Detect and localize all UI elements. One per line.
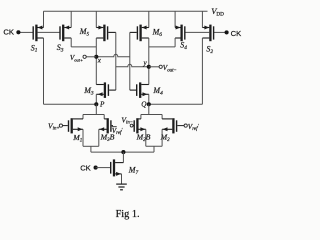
label M3	[83, 86, 94, 96]
wire node y vertical (M6 drain to M4 drain)	[148, 38, 150, 85]
ground symbol	[116, 184, 127, 190]
VDD power rail	[44, 10, 208, 12]
wire M2 source down	[161, 129, 163, 146]
svg-text:M7: M7	[128, 166, 139, 176]
svg-text:M2: M2	[160, 133, 171, 143]
wire M2 drain riser	[161, 115, 163, 119]
label M7	[128, 166, 139, 176]
Vout- open circle	[159, 65, 162, 68]
wire M1 drain riser	[82, 115, 84, 119]
CK label right	[231, 29, 242, 38]
label S1	[31, 43, 38, 53]
transistor S1 (PMOS switch)	[33, 25, 43, 42]
transistor M3 (NMOS latch)	[96, 82, 116, 98]
wire VDD stub to M5	[95, 11, 97, 27]
label node P	[99, 101, 105, 109]
svg-text:VDD: VDD	[211, 6, 224, 18]
label M3B	[100, 133, 115, 143]
svg-text:M1: M1	[72, 133, 82, 143]
node x junction	[94, 55, 98, 59]
wire node Q to input pair	[148, 104, 150, 114]
wire node Q horizontal	[149, 103, 203, 105]
svg-text:M6: M6	[152, 27, 163, 37]
clock line CK to S2 gate	[214, 31, 227, 33]
Vout+ output terminal	[86, 56, 96, 58]
wire M6 gate to cross-couple	[130, 32, 137, 90]
clock line S2 to S4 gate	[185, 31, 209, 33]
svg-text:CK: CK	[231, 29, 242, 38]
Vin+ input terminal	[59, 124, 62, 127]
wire common tail	[91, 151, 154, 153]
wire right pair drain bus to node Q	[141, 114, 162, 116]
wire M3 source to node P	[95, 94, 97, 104]
svg-text:S3: S3	[57, 43, 64, 53]
label Vin+	[48, 121, 60, 131]
wire M4 source to node Q	[148, 94, 150, 104]
svg-text:M5: M5	[79, 27, 90, 37]
svg-text:y: y	[143, 59, 148, 67]
svg-text:Vin−: Vin−	[121, 115, 133, 125]
clock line S1 to S3 gate	[38, 31, 60, 33]
wire VDD stub to S3	[70, 11, 72, 27]
svg-text:x: x	[97, 57, 102, 65]
transistor M7 (tail NMOS)	[96, 159, 124, 176]
label Vout+	[70, 54, 83, 62]
svg-text:M4: M4	[152, 86, 163, 96]
label Vout-	[163, 64, 177, 73]
node Q junction	[147, 102, 151, 106]
wire M5/M3 gates to node y (hop over)	[116, 64, 149, 67]
transistor M2B (reference NMOS)	[133, 118, 146, 133]
wire M3B drain riser	[103, 115, 105, 119]
label S2	[206, 44, 213, 54]
wire node P horizontal	[44, 103, 97, 105]
transistor M4 (NMOS latch)	[130, 82, 149, 98]
wire left pair drain bus to node P	[83, 114, 104, 116]
CK input terminal M7	[94, 166, 98, 170]
wire S3 drain to node x	[71, 38, 96, 47]
tail junction	[121, 150, 125, 154]
transistor M2 (input NMOS)	[162, 118, 184, 133]
CK label left	[3, 28, 14, 37]
label node x	[97, 57, 102, 65]
svg-text:S1: S1	[31, 43, 38, 53]
label M4	[152, 86, 163, 96]
label M5	[79, 27, 90, 37]
wire VDD stub to S1	[43, 11, 45, 27]
label M2B	[136, 133, 151, 143]
CK input terminal left	[16, 30, 20, 34]
transistor M6 (PMOS latch)	[137, 25, 148, 42]
Vout+ open circle	[83, 55, 86, 58]
wire M5 gate to cross-couple	[108, 32, 116, 90]
wire VDD stub to S2	[201, 11, 203, 27]
svg-text:Vin+: Vin+	[48, 121, 60, 131]
label S3	[57, 43, 64, 53]
transistor M3B (reference NMOS)	[99, 118, 113, 133]
transistor S4 (PMOS switch)	[175, 25, 185, 42]
label CK bottom	[80, 164, 91, 173]
wire M2B drain riser	[140, 115, 142, 119]
wire M1 source down	[82, 129, 84, 146]
caption Fig 1.	[116, 209, 140, 220]
label node y	[143, 59, 148, 67]
wire VDD stub to S4	[174, 11, 176, 27]
svg-text:S4: S4	[180, 41, 187, 51]
label Vref	[188, 123, 200, 132]
Vref input terminal	[184, 124, 187, 127]
wire right pair source bus	[146, 145, 162, 147]
svg-text:M3B: M3B	[100, 133, 115, 143]
wire M2B source down	[145, 129, 147, 146]
VDD label	[211, 6, 224, 18]
wire S1 drain down to node P rail	[43, 38, 45, 104]
clock line CK to S1 gate	[18, 31, 33, 33]
label M6	[152, 27, 163, 37]
wire M7 source to ground	[121, 174, 123, 184]
svg-text:CK: CK	[3, 28, 14, 37]
node y junction	[147, 65, 151, 69]
label Vin-	[121, 115, 133, 125]
wire left pair source bus	[83, 145, 99, 147]
label S4	[180, 41, 187, 51]
wire node P to input pair	[95, 104, 97, 114]
svg-text:P: P	[99, 101, 105, 109]
wire S2 drain down to node Q rail	[201, 38, 203, 104]
wire VDD stub to M6	[148, 11, 150, 27]
svg-text:Vout+: Vout+	[70, 54, 83, 62]
svg-text:S2: S2	[206, 44, 213, 54]
svg-text:Vout−: Vout−	[163, 64, 177, 73]
transistor M1 (input NMOS)	[63, 118, 84, 133]
svg-text:Q: Q	[141, 101, 147, 109]
wire node x vertical (M5 drain to M3 drain)	[95, 38, 97, 85]
node P junction	[94, 102, 98, 106]
label Vref-bar left	[112, 127, 124, 136]
label M1	[72, 133, 82, 143]
svg-text:Fig 1.: Fig 1.	[116, 209, 140, 220]
svg-text:M2B: M2B	[136, 133, 151, 143]
wire S4 drain to node y	[149, 38, 175, 47]
svg-text:M3: M3	[83, 86, 94, 96]
wire left pair tail stub	[90, 146, 92, 152]
label M2	[160, 133, 171, 143]
CK input terminal right	[225, 30, 229, 34]
Vout- output terminal	[149, 66, 159, 68]
svg-text:Vref′: Vref′	[188, 123, 200, 132]
Vin- input terminal	[130, 124, 133, 127]
label node Q	[141, 101, 147, 109]
transistor M5 (PMOS latch)	[96, 25, 107, 42]
wire tail to M7 drain	[122, 152, 124, 163]
wire right pair tail stub	[153, 146, 155, 152]
svg-text:CK: CK	[80, 164, 91, 173]
wire M3B source down	[98, 129, 100, 146]
transistor S2 (PMOS switch)	[202, 25, 213, 42]
wire node x to M6/M4 gates (hop over)	[96, 54, 130, 57]
transistor S3 (PMOS switch)	[60, 25, 71, 42]
